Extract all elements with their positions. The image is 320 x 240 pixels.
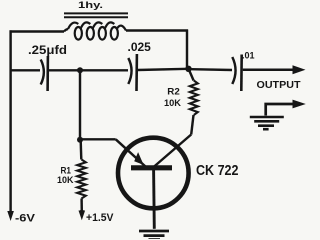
wire: right vertical drop to main bus [186, 30, 188, 69]
wire: emitter horizontal from node [80, 138, 116, 140]
svg-text:.25μfd: .25μfd [28, 45, 67, 57]
inductor L1 1hy (core lines) [64, 13, 128, 17]
svg-text:10K: 10K [164, 98, 181, 109]
capacitor C2 .025 (straight plate) [135, 54, 138, 91]
capacitor C2 .025 (curved plate) [128, 58, 131, 84]
wire: output lead [243, 69, 294, 72]
transistor Q1 collector lead (diagonal from circle) [153, 135, 191, 168]
wire: left rail vertical [9, 30, 11, 213]
terminal arrow: +1.5V (down) [79, 211, 86, 221]
wire: main bus C2 to right junction [138, 69, 188, 70]
wire: main bus left rail to C1 [10, 69, 41, 71]
transistor Q1 emitter arrow [134, 152, 143, 165]
svg-text:1hy.: 1hy. [78, 0, 103, 11]
terminal arrow: ground return (right) [293, 100, 306, 109]
wire: main bus C1 to C2 [49, 69, 129, 71]
node: junction dot at R2 / C3 [185, 66, 191, 72]
node: junction dot at emitter/R1 [77, 137, 83, 143]
transistor Q1 base bar [131, 165, 172, 170]
resistor R1 10K [77, 160, 86, 199]
wire: junction to C3 [191, 68, 232, 71]
capacitor C3 .01 (straight plate) [240, 55, 243, 92]
svg-text:CK 722: CK 722 [196, 163, 239, 179]
svg-text:.025: .025 [128, 40, 152, 54]
transistor Q1 body circle [118, 138, 189, 209]
terminal arrow: OUTPUT (right) [293, 65, 306, 74]
svg-text:+1.5V: +1.5V [86, 212, 114, 224]
capacitor C1 .25mfd (straight plate) [46, 56, 49, 91]
ground: output return [250, 117, 284, 129]
wire: R1 top lead [79, 138, 82, 160]
svg-text:10K: 10K [57, 175, 74, 186]
transistor Q1 emitter lead (diagonal into circle) [116, 139, 146, 167]
svg-text:R2: R2 [167, 87, 180, 98]
svg-text:OUTPUT: OUTPUT [257, 80, 301, 91]
ground: transistor base [139, 231, 169, 240]
transistor Q1 base lead down [152, 170, 156, 229]
wire: R2 top lead from junction [189, 69, 194, 81]
svg-text:.01: .01 [242, 51, 255, 61]
wire: R1 bottom lead [80, 199, 83, 213]
capacitor C3 .01 (curved plate) [232, 57, 235, 84]
wire: top-left horizontal from left rail to inductor [10, 30, 65, 32]
capacitor C1 .25mfd (curved plate) [41, 60, 44, 85]
svg-text:-6V: -6V [15, 213, 36, 225]
inductor L1 1hy (winding coil, 4 loops) [64, 22, 126, 39]
wire: top-right horizontal from inductor to right drop [126, 29, 188, 31]
wire: ground return bend [266, 104, 294, 116]
wire: branch vertical from main bus to emitter node [79, 70, 81, 140]
wire: R2 bottom lead to collector [191, 115, 193, 135]
resistor R2 10K [190, 81, 198, 116]
terminal arrow: -6V (down) [7, 211, 14, 221]
node: junction dot at base branch [77, 67, 83, 73]
